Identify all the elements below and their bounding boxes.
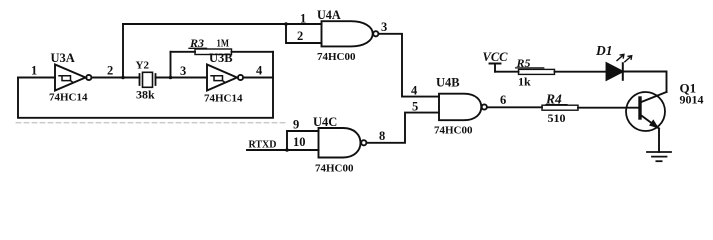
svg-text:74HC00: 74HC00: [317, 51, 356, 63]
label R5: [516, 56, 544, 70]
scan shadow under feedback loop wire: [16, 122, 288, 124]
wire: R3 left lead: [171, 51, 196, 53]
svg-text:2: 2: [297, 29, 303, 43]
resistor R4: [542, 105, 578, 110]
svg-text:U4A: U4A: [317, 8, 341, 22]
svg-text:74HC14: 74HC14: [49, 92, 88, 104]
inverter U3A: [55, 65, 91, 91]
svg-text:U3B: U3B: [209, 51, 233, 65]
svg-text:1: 1: [31, 64, 37, 78]
nand gate U4A: [322, 21, 379, 46]
svg-text:4: 4: [411, 84, 418, 98]
wire: U3B output (pin 4) to loop: [243, 77, 273, 79]
svg-text:Y2: Y2: [136, 60, 150, 72]
wire: Y2 to U3B input (pin 3): [156, 77, 208, 79]
svg-text:2: 2: [107, 64, 113, 78]
svg-text:10: 10: [293, 135, 306, 149]
svg-text:RTXD: RTXD: [249, 139, 277, 151]
inverter U3B: [207, 65, 243, 91]
svg-text:9: 9: [293, 118, 299, 132]
node: oscillator output junction: [121, 76, 125, 80]
transistor Q1: [626, 92, 667, 131]
svg-text:5: 5: [412, 100, 418, 114]
wire: U4A output (pin 3) to U4B pin 4: [379, 34, 439, 97]
svg-text:D1: D1: [595, 43, 613, 58]
ground: [647, 152, 671, 161]
wire: U3A output to Y2 (pin 2): [92, 77, 140, 79]
svg-text:38k: 38k: [136, 88, 155, 102]
nand gate U4B: [439, 94, 487, 121]
wire: feedback loop right/bottom/left: [18, 52, 273, 118]
wire: U4A pin 2 tie: [286, 24, 322, 43]
svg-text:U4B: U4B: [436, 76, 460, 90]
svg-text:8: 8: [379, 129, 385, 143]
wire: U4C output (pin 8) to U4B pin 5: [367, 113, 439, 143]
svg-text:6: 6: [500, 93, 506, 107]
svg-text:U3A: U3A: [51, 51, 75, 65]
power VCC terminal: [490, 64, 501, 72]
node: RTXD tie junction: [285, 148, 289, 152]
svg-text:510: 510: [548, 111, 566, 125]
node: pin 3 / R3 junction: [169, 76, 173, 80]
svg-text:3: 3: [180, 64, 186, 78]
svg-text:U4C: U4C: [313, 115, 337, 129]
wire: D1 to Q1 collector: [624, 72, 667, 93]
svg-text:74HC14: 74HC14: [204, 93, 243, 105]
wire: U4C pin 9 tie: [287, 131, 319, 150]
svg-text:3: 3: [381, 20, 387, 34]
wire: top rail to U4A pin 1: [123, 23, 322, 25]
svg-text:74HC00: 74HC00: [315, 163, 354, 175]
wire: U3A input (pin 1): [18, 77, 55, 79]
label R4: [545, 92, 567, 107]
svg-text:1: 1: [300, 12, 306, 26]
node: U4A input tie junction: [284, 22, 288, 26]
wire: R3 right lead: [232, 51, 274, 53]
svg-text:4: 4: [256, 64, 263, 78]
nand gate U4C: [319, 128, 367, 158]
resistor R5: [519, 69, 555, 74]
wire: Q1 emitter to ground: [658, 129, 660, 153]
wire: U4B output (pin 6) to R4: [487, 106, 542, 108]
wire: RTXD input / U4C pin 10: [247, 149, 319, 151]
crystal Y2: [140, 72, 156, 87]
svg-text:9014: 9014: [680, 93, 704, 107]
wire: R4 to Q1 base: [578, 107, 640, 109]
wire: junction riser to top rail: [122, 24, 124, 78]
resistor R3: [195, 49, 232, 55]
label R3: [189, 36, 207, 50]
svg-text:1M: 1M: [217, 38, 230, 50]
wire: R3 branch riser: [170, 52, 172, 78]
wire: VCC to R5: [495, 71, 519, 73]
svg-text:74HC00: 74HC00: [434, 125, 473, 137]
diode D1 (LED): [607, 54, 632, 79]
svg-text:VCC: VCC: [483, 50, 509, 64]
svg-text:1k: 1k: [518, 75, 531, 89]
wire: R5 to D1: [555, 71, 607, 73]
